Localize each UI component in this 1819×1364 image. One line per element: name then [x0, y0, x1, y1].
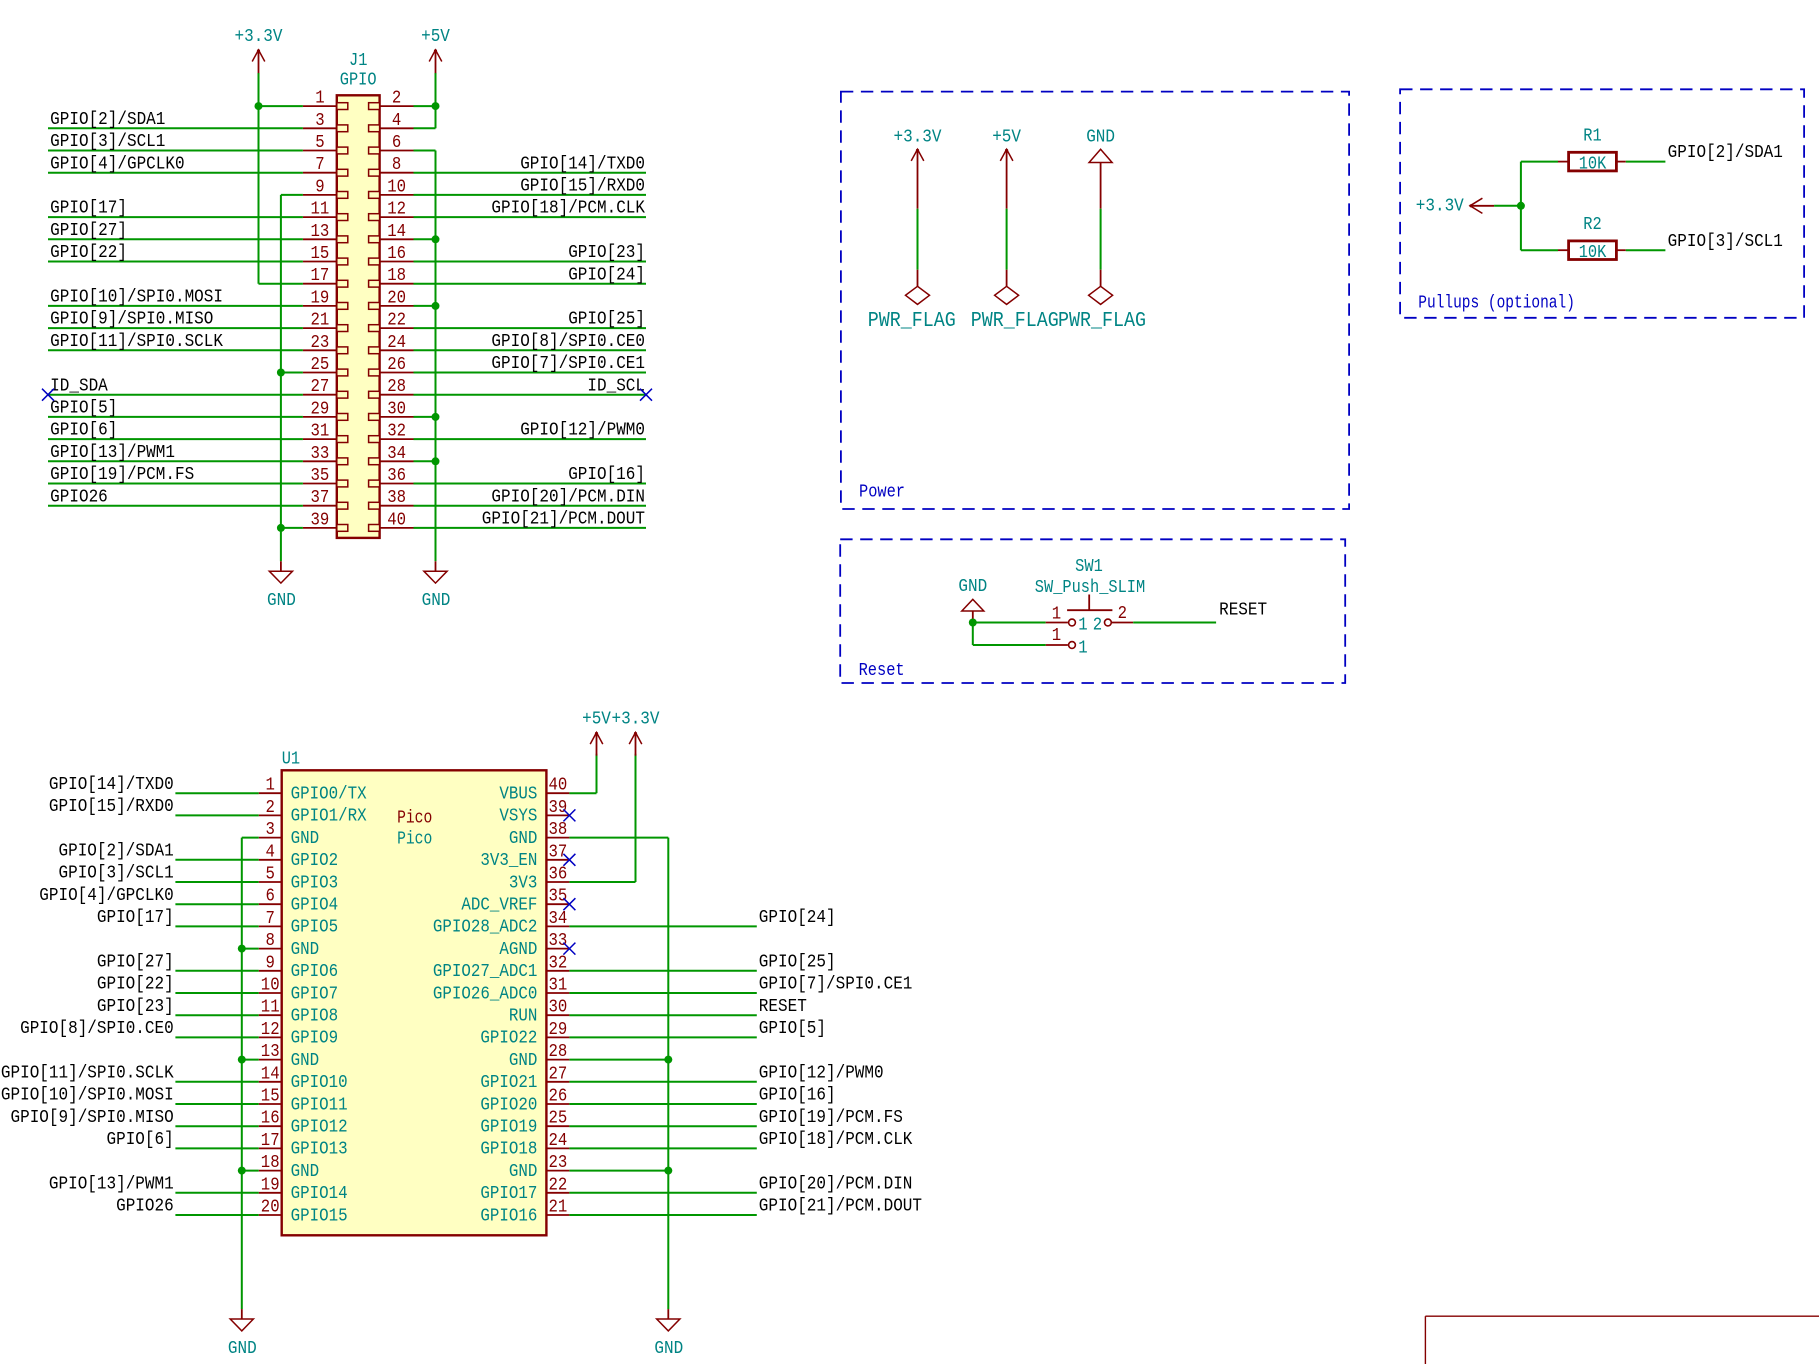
svg-text:GPIO9: GPIO9 [291, 1029, 339, 1049]
svg-text:23: 23 [549, 1153, 568, 1173]
svg-text:J1: J1 [349, 51, 367, 71]
svg-text:7: 7 [315, 155, 324, 175]
svg-text:GPIO[3]/SCL1: GPIO[3]/SCL1 [1668, 232, 1783, 252]
svg-text:GPIO6: GPIO6 [291, 962, 339, 982]
svg-text:GND: GND [291, 1051, 320, 1071]
svg-text:GPIO[19]/PCM.FS: GPIO[19]/PCM.FS [759, 1108, 903, 1128]
svg-text:AGND: AGND [499, 940, 537, 960]
svg-text:GPIO28_ADC2: GPIO28_ADC2 [433, 918, 537, 938]
svg-text:32: 32 [387, 422, 406, 442]
svg-text:GPIO[21]/PCM.DOUT: GPIO[21]/PCM.DOUT [482, 510, 645, 530]
svg-text:39: 39 [310, 511, 329, 531]
svg-text:GPIO[8]/SPI0.CE0: GPIO[8]/SPI0.CE0 [20, 1019, 174, 1039]
svg-text:22: 22 [549, 1176, 568, 1196]
svg-text:GPIO27_ADC1: GPIO27_ADC1 [433, 962, 537, 982]
svg-text:GND: GND [291, 829, 320, 849]
svg-text:23: 23 [310, 333, 329, 353]
svg-text:4: 4 [266, 843, 275, 863]
svg-text:19: 19 [261, 1176, 280, 1196]
svg-text:GPIO[16]: GPIO[16] [759, 1086, 836, 1106]
svg-text:18: 18 [387, 266, 406, 286]
svg-text:GPIO[19]/PCM.FS: GPIO[19]/PCM.FS [50, 465, 194, 485]
svg-text:GND: GND [958, 577, 987, 597]
svg-text:SW1: SW1 [1075, 557, 1103, 577]
svg-text:GPIO20: GPIO20 [480, 1096, 537, 1116]
svg-text:GPIO18: GPIO18 [480, 1140, 537, 1160]
svg-text:25: 25 [549, 1109, 568, 1129]
svg-text:GPIO[22]: GPIO[22] [50, 243, 127, 263]
svg-text:10K: 10K [1579, 243, 1607, 263]
svg-text:GND: GND [422, 591, 451, 611]
svg-text:20: 20 [387, 289, 406, 309]
svg-text:PWR_FLAG: PWR_FLAG [868, 309, 956, 333]
svg-text:GPIO[21]/PCM.DOUT: GPIO[21]/PCM.DOUT [759, 1197, 922, 1217]
svg-text:1: 1 [1052, 626, 1061, 646]
svg-text:1: 1 [266, 776, 275, 796]
svg-text:GPIO[15]/RXD0: GPIO[15]/RXD0 [49, 797, 174, 817]
svg-text:3: 3 [266, 820, 275, 840]
svg-text:+5V: +5V [992, 128, 1022, 148]
svg-text:1: 1 [1052, 605, 1061, 625]
svg-text:27: 27 [549, 1065, 568, 1085]
svg-text:GPIO[18]/PCM.CLK: GPIO[18]/PCM.CLK [759, 1130, 913, 1150]
svg-text:GPIO26: GPIO26 [50, 488, 108, 508]
svg-text:GND: GND [228, 1339, 257, 1359]
svg-text:GPIO[12]/PWM0: GPIO[12]/PWM0 [759, 1064, 884, 1084]
svg-text:GND: GND [509, 829, 538, 849]
svg-text:17: 17 [310, 266, 329, 286]
svg-text:20: 20 [261, 1198, 280, 1218]
svg-text:GPIO[3]/SCL1: GPIO[3]/SCL1 [50, 132, 165, 152]
svg-text:Reset: Reset [859, 661, 905, 681]
svg-text:37: 37 [310, 488, 329, 508]
svg-text:14: 14 [387, 222, 406, 242]
svg-text:3: 3 [315, 111, 324, 131]
svg-text:GPIO[24]: GPIO[24] [759, 908, 836, 928]
svg-text:Pullups (optional): Pullups (optional) [1418, 294, 1575, 314]
svg-text:GPIO[27]: GPIO[27] [50, 221, 127, 241]
svg-text:GPIO[22]: GPIO[22] [97, 975, 174, 995]
svg-text:GPIO[7]/SPI0.CE1: GPIO[7]/SPI0.CE1 [491, 354, 645, 374]
svg-text:38: 38 [549, 820, 568, 840]
svg-text:GPIO[27]: GPIO[27] [97, 953, 174, 973]
svg-text:GND: GND [291, 1162, 320, 1182]
svg-text:21: 21 [549, 1198, 568, 1218]
svg-text:9: 9 [266, 954, 275, 974]
svg-text:26: 26 [549, 1087, 568, 1107]
svg-text:27: 27 [310, 377, 329, 397]
svg-text:+5V: +5V [582, 710, 612, 730]
svg-text:Power: Power [859, 483, 905, 503]
svg-text:GPIO0/TX: GPIO0/TX [291, 785, 367, 805]
svg-text:VSYS: VSYS [499, 807, 537, 827]
svg-text:35: 35 [310, 466, 329, 486]
svg-text:2: 2 [1118, 604, 1127, 624]
svg-text:3V3_EN: 3V3_EN [480, 851, 537, 871]
svg-text:GPIO[2]/SDA1: GPIO[2]/SDA1 [59, 842, 174, 862]
svg-text:R1: R1 [1583, 127, 1601, 147]
svg-text:18: 18 [261, 1153, 280, 1173]
svg-text:GPIO22: GPIO22 [480, 1029, 537, 1049]
svg-text:GPIO[11]/SPI0.SCLK: GPIO[11]/SPI0.SCLK [1, 1064, 175, 1084]
svg-text:GPIO12: GPIO12 [291, 1118, 348, 1138]
svg-text:8: 8 [392, 155, 401, 175]
svg-text:GPIO[13]/PWM1: GPIO[13]/PWM1 [50, 443, 175, 463]
svg-text:GPIO3: GPIO3 [291, 874, 339, 894]
svg-text:GPIO[12]/PWM0: GPIO[12]/PWM0 [520, 421, 645, 441]
svg-text:GPIO[25]: GPIO[25] [759, 953, 836, 973]
svg-text:33: 33 [549, 931, 568, 951]
svg-text:1: 1 [1078, 639, 1087, 659]
svg-text:30: 30 [549, 998, 568, 1018]
svg-text:37: 37 [549, 843, 568, 863]
svg-text:29: 29 [549, 1020, 568, 1040]
svg-text:GPIO[16]: GPIO[16] [568, 465, 645, 485]
svg-text:15: 15 [310, 244, 329, 264]
svg-text:ADC_VREF: ADC_VREF [461, 896, 537, 916]
svg-text:11: 11 [310, 200, 329, 220]
svg-text:GPIO13: GPIO13 [291, 1140, 348, 1160]
svg-text:GPIO7: GPIO7 [291, 985, 339, 1005]
svg-text:38: 38 [387, 488, 406, 508]
svg-text:Pico: Pico [397, 809, 432, 829]
svg-text:GPIO[23]: GPIO[23] [97, 997, 174, 1017]
svg-text:10K: 10K [1579, 155, 1607, 175]
svg-text:31: 31 [549, 976, 568, 996]
svg-text:22: 22 [387, 311, 406, 331]
svg-text:GPIO[23]: GPIO[23] [568, 243, 645, 263]
svg-text:GPIO2: GPIO2 [291, 851, 339, 871]
svg-text:10: 10 [261, 976, 280, 996]
svg-text:28: 28 [387, 377, 406, 397]
svg-text:GND: GND [291, 940, 320, 960]
svg-text:2: 2 [1093, 616, 1102, 636]
svg-text:34: 34 [549, 909, 568, 929]
svg-text:PWR_FLAG: PWR_FLAG [1058, 309, 1146, 333]
svg-text:28: 28 [549, 1042, 568, 1062]
svg-text:40: 40 [387, 511, 406, 531]
svg-text:GPIO[2]/SDA1: GPIO[2]/SDA1 [50, 110, 165, 130]
svg-text:5: 5 [266, 865, 275, 885]
svg-text:GPIO[24]: GPIO[24] [568, 266, 645, 286]
svg-text:GPIO8: GPIO8 [291, 1007, 339, 1027]
svg-text:1: 1 [1078, 616, 1087, 636]
svg-text:GPIO17: GPIO17 [480, 1184, 537, 1204]
svg-text:GPIO4: GPIO4 [291, 896, 339, 916]
svg-text:GPIO[14]/TXD0: GPIO[14]/TXD0 [520, 155, 645, 175]
svg-text:GPIO[20]/PCM.DIN: GPIO[20]/PCM.DIN [759, 1175, 913, 1195]
svg-text:35: 35 [549, 887, 568, 907]
svg-text:12: 12 [261, 1020, 280, 1040]
svg-text:GND: GND [509, 1051, 538, 1071]
svg-text:7: 7 [266, 909, 275, 929]
svg-text:+3.3V: +3.3V [235, 27, 284, 47]
svg-text:PWR_FLAG: PWR_FLAG [971, 309, 1059, 333]
svg-text:14: 14 [261, 1065, 280, 1085]
svg-text:21: 21 [310, 311, 329, 331]
svg-text:GPIO[5]: GPIO[5] [759, 1019, 826, 1039]
svg-text:GPIO[10]/SPI0.MOSI: GPIO[10]/SPI0.MOSI [1, 1086, 174, 1106]
svg-text:6: 6 [392, 133, 401, 153]
svg-text:8: 8 [266, 931, 275, 951]
svg-text:GPIO[5]: GPIO[5] [50, 399, 117, 419]
svg-text:2: 2 [392, 89, 401, 109]
svg-text:4: 4 [392, 111, 401, 131]
svg-text:GPIO[17]: GPIO[17] [97, 908, 174, 928]
svg-text:GPIO[14]/TXD0: GPIO[14]/TXD0 [49, 775, 174, 795]
svg-text:31: 31 [310, 422, 329, 442]
svg-text:19: 19 [310, 289, 329, 309]
svg-text:GND: GND [509, 1162, 538, 1182]
svg-text:GPIO[6]: GPIO[6] [50, 421, 117, 441]
svg-text:29: 29 [310, 400, 329, 420]
svg-text:GPIO[4]/GPCLK0: GPIO[4]/GPCLK0 [39, 886, 173, 906]
svg-text:17: 17 [261, 1131, 280, 1151]
svg-text:GPIO[13]/PWM1: GPIO[13]/PWM1 [49, 1175, 174, 1195]
svg-text:RESET: RESET [759, 997, 807, 1017]
svg-text:3V3: 3V3 [509, 874, 538, 894]
svg-text:GPIO[18]/PCM.CLK: GPIO[18]/PCM.CLK [491, 199, 645, 219]
svg-text:VBUS: VBUS [499, 785, 537, 805]
svg-text:GND: GND [267, 591, 296, 611]
svg-text:1: 1 [315, 89, 324, 109]
svg-text:GPIO1/RX: GPIO1/RX [291, 807, 367, 827]
svg-text:GPIO11: GPIO11 [291, 1096, 348, 1116]
svg-text:36: 36 [549, 865, 568, 885]
svg-text:5: 5 [315, 133, 324, 153]
svg-text:40: 40 [549, 776, 568, 796]
svg-text:GPIO[2]/SDA1: GPIO[2]/SDA1 [1668, 143, 1783, 163]
svg-text:GPIO[4]/GPCLK0: GPIO[4]/GPCLK0 [50, 155, 184, 175]
svg-text:16: 16 [387, 244, 406, 264]
svg-text:GPIO10: GPIO10 [291, 1073, 348, 1093]
svg-text:GPIO[17]: GPIO[17] [50, 199, 127, 219]
svg-text:ID_SCL: ID_SCL [587, 377, 645, 397]
svg-text:11: 11 [261, 998, 280, 1018]
svg-text:GPIO15: GPIO15 [291, 1207, 348, 1227]
svg-text:+3.3V: +3.3V [894, 128, 943, 148]
svg-text:GPIO[9]/SPI0.MISO: GPIO[9]/SPI0.MISO [50, 310, 213, 330]
svg-text:GPIO14: GPIO14 [291, 1184, 348, 1204]
svg-text:GPIO[10]/SPI0.MOSI: GPIO[10]/SPI0.MOSI [50, 288, 223, 308]
svg-text:GND: GND [1086, 128, 1115, 148]
svg-text:GPIO[25]: GPIO[25] [568, 310, 645, 330]
svg-text:GPIO26: GPIO26 [116, 1197, 174, 1217]
svg-text:GPIO[6]: GPIO[6] [106, 1130, 173, 1150]
svg-text:GPIO[20]/PCM.DIN: GPIO[20]/PCM.DIN [491, 488, 645, 508]
svg-text:GND: GND [654, 1339, 683, 1359]
svg-text:16: 16 [261, 1109, 280, 1129]
svg-text:15: 15 [261, 1087, 280, 1107]
svg-text:RUN: RUN [509, 1007, 538, 1027]
svg-text:RESET: RESET [1219, 601, 1267, 621]
svg-text:GPIO26_ADC0: GPIO26_ADC0 [433, 985, 537, 1005]
svg-text:+5V: +5V [421, 27, 451, 47]
svg-text:GPIO[7]/SPI0.CE1: GPIO[7]/SPI0.CE1 [759, 975, 913, 995]
svg-text:10: 10 [387, 178, 406, 198]
svg-text:GPIO[3]/SCL1: GPIO[3]/SCL1 [59, 864, 174, 884]
svg-text:24: 24 [549, 1131, 568, 1151]
svg-text:32: 32 [549, 954, 568, 974]
svg-text:13: 13 [310, 222, 329, 242]
svg-text:ID_SDA: ID_SDA [50, 377, 108, 397]
svg-text:12: 12 [387, 200, 406, 220]
svg-text:GPIO[11]/SPI0.SCLK: GPIO[11]/SPI0.SCLK [50, 332, 224, 352]
svg-text:GPIO[8]/SPI0.CE0: GPIO[8]/SPI0.CE0 [491, 332, 645, 352]
svg-text:GPIO16: GPIO16 [480, 1207, 537, 1227]
svg-text:2: 2 [266, 798, 275, 818]
svg-text:Pico: Pico [397, 830, 432, 850]
svg-text:36: 36 [387, 466, 406, 486]
svg-text:9: 9 [315, 178, 324, 198]
svg-text:GPIO21: GPIO21 [480, 1073, 537, 1093]
svg-text:25: 25 [310, 355, 329, 375]
svg-text:6: 6 [266, 887, 275, 907]
svg-text:+3.3V: +3.3V [1416, 197, 1465, 217]
svg-text:34: 34 [387, 444, 406, 464]
svg-text:33: 33 [310, 444, 329, 464]
svg-text:24: 24 [387, 333, 406, 353]
svg-text:R2: R2 [1583, 215, 1601, 235]
svg-text:GPIO: GPIO [340, 71, 377, 91]
svg-text:13: 13 [261, 1042, 280, 1062]
svg-text:39: 39 [549, 798, 568, 818]
svg-text:26: 26 [387, 355, 406, 375]
svg-text:GPIO[15]/RXD0: GPIO[15]/RXD0 [520, 177, 645, 197]
svg-text:GPIO19: GPIO19 [480, 1118, 537, 1138]
svg-text:+3.3V: +3.3V [611, 710, 660, 730]
svg-text:U1: U1 [282, 750, 300, 770]
svg-text:GPIO[9]/SPI0.MISO: GPIO[9]/SPI0.MISO [11, 1108, 174, 1128]
svg-text:30: 30 [387, 400, 406, 420]
svg-text:GPIO5: GPIO5 [291, 918, 339, 938]
